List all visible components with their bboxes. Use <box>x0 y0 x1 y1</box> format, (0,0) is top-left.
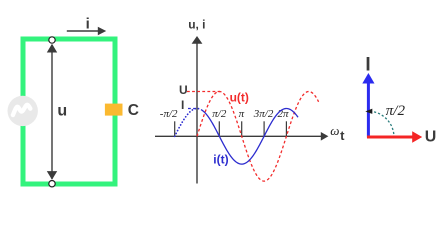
arc arrowhead <box>365 109 372 114</box>
svg-text:π: π <box>239 108 245 120</box>
capacitor C <box>105 104 123 116</box>
svg-text:U: U <box>179 83 188 97</box>
curve i(t) blue solid cosine <box>201 109 298 165</box>
svg-text:ω: ω <box>330 123 339 138</box>
svg-text:u(t): u(t) <box>230 91 249 105</box>
wire: circuit loop <box>23 39 115 184</box>
graph y-axis u,i <box>192 36 203 184</box>
angle arc pi/2 <box>370 111 394 135</box>
axis ticks <box>174 121 176 136</box>
level line I (blue dashed) <box>188 108 197 110</box>
node bottom <box>49 181 55 187</box>
svg-text:C: C <box>128 102 139 119</box>
svg-text:u: u <box>57 102 67 119</box>
svg-text:U: U <box>425 129 437 146</box>
level line U (red dashed) <box>187 91 220 93</box>
ac source G1 <box>8 96 38 126</box>
svg-text:u, i: u, i <box>188 17 205 31</box>
graph x-axis wt <box>155 132 328 141</box>
current arrow i <box>67 27 106 36</box>
svg-text:3π/2: 3π/2 <box>253 108 274 120</box>
svg-text:I: I <box>181 98 184 112</box>
phasor U (red arrow) <box>367 131 422 142</box>
voltage arrow u (double) <box>47 44 57 180</box>
svg-text:i(t): i(t) <box>213 152 228 166</box>
svg-text:t: t <box>340 128 345 143</box>
curve i(t) dotted part before 0 <box>175 109 202 137</box>
curve u(t) red dashed sine <box>197 92 319 182</box>
phasor I (blue arrow) <box>362 73 374 138</box>
svg-text:I: I <box>365 55 370 76</box>
svg-text:π/2: π/2 <box>212 108 227 120</box>
svg-text:-π/2: -π/2 <box>160 108 178 120</box>
svg-text:i: i <box>86 15 90 32</box>
svg-text:π/2: π/2 <box>386 103 406 119</box>
node top <box>49 37 55 43</box>
